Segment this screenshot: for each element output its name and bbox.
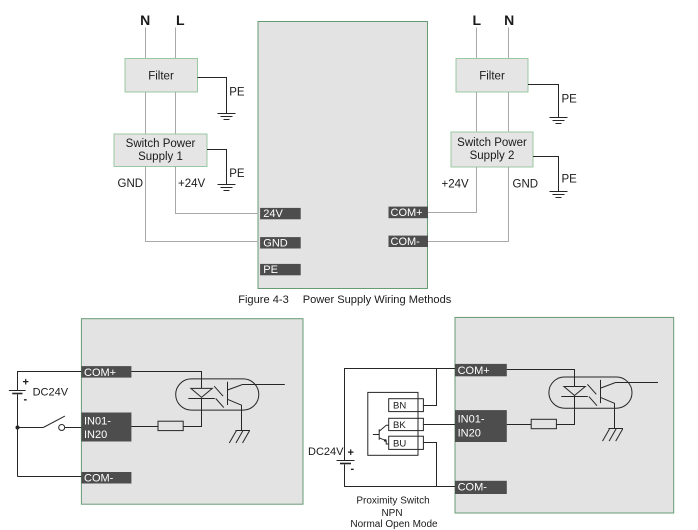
optocoupler U1 (left) <box>176 379 285 430</box>
svg-text:Switch Power: Switch Power <box>126 138 196 150</box>
wire battery- to COM- (right) <box>345 465 456 487</box>
svg-text:L: L <box>176 12 185 28</box>
wire SPS2 +24V to drive COM+ terminal <box>428 167 477 213</box>
svg-text:GND: GND <box>118 178 144 190</box>
terminal IN01-IN20 (bottom right) <box>455 410 507 442</box>
svg-text:N: N <box>504 12 514 28</box>
terminal BN <box>389 399 424 412</box>
svg-text:GND: GND <box>513 179 539 191</box>
svg-text:Proximity Switch: Proximity Switch <box>356 496 429 507</box>
input module box (right) <box>455 317 674 513</box>
terminal COM+ (bottom left) <box>81 366 131 379</box>
ground PE (SPS2) <box>550 192 568 198</box>
wire SPS2 PE <box>533 157 559 192</box>
input module box (left) <box>81 319 303 505</box>
battery DC24V (right) <box>337 461 355 464</box>
terminal 24V <box>260 208 301 220</box>
terminal COM- (top) <box>389 236 429 248</box>
svg-text:+24V: +24V <box>442 179 470 191</box>
wire COM+ to optocoupler LED (right) <box>507 370 575 387</box>
svg-text:COM-: COM- <box>458 482 488 494</box>
wire SPS1 GND to drive GND terminal <box>146 167 259 242</box>
wire Filter1 PE <box>198 78 227 114</box>
optocoupler U2 (right) <box>549 377 658 428</box>
terminal BK <box>389 418 424 431</box>
terminal COM- (bottom left) <box>81 472 131 484</box>
svg-text:Filter: Filter <box>148 71 174 83</box>
svg-text:-: - <box>351 463 355 475</box>
battery DC24V (left) <box>9 391 26 394</box>
svg-text:COM+: COM+ <box>458 365 490 377</box>
wire BU to COM- rail <box>423 443 436 487</box>
svg-text:DC24V: DC24V <box>33 387 69 399</box>
terminal COM- (bottom right) <box>455 481 507 494</box>
svg-text:Supply 2: Supply 2 <box>470 150 515 162</box>
ground PE (filter 2) <box>550 118 568 124</box>
wire IN01 to resistor (right) <box>507 424 531 426</box>
svg-text:COM+: COM+ <box>391 207 423 219</box>
svg-text:COM-: COM- <box>84 472 114 484</box>
switch contact circle <box>59 425 65 431</box>
switch power supply 1 box <box>114 134 207 167</box>
wire Filter2 L to SPS2 <box>476 92 478 132</box>
switch blade <box>43 416 65 427</box>
svg-text:-: - <box>24 394 28 406</box>
wire Filter1 L to Switch Power Supply 1 <box>175 92 177 134</box>
svg-text:BN: BN <box>393 401 406 412</box>
terminal PE <box>260 264 301 276</box>
svg-text:24V: 24V <box>263 208 283 220</box>
svg-text:COM-: COM- <box>391 236 421 248</box>
ground PE (filter 1) <box>218 114 236 120</box>
ground (opto emitter, right) <box>603 429 624 442</box>
svg-text:Filter: Filter <box>479 71 505 83</box>
wire Filter1 N to Switch Power Supply 1 <box>145 92 147 134</box>
svg-text:IN01-: IN01- <box>84 416 111 428</box>
svg-text:PE: PE <box>263 264 278 276</box>
wire resistor to LED cathode (left) <box>183 399 201 427</box>
wire N to Filter 2 <box>508 28 510 59</box>
wire SPS2 GND to drive COM- terminal <box>428 167 509 242</box>
wire COM- (bottom left) <box>18 476 82 478</box>
svg-text:Normal Open Mode: Normal Open Mode <box>350 519 438 530</box>
svg-text:IN01-: IN01- <box>458 414 485 426</box>
svg-text:IN20: IN20 <box>84 429 107 441</box>
svg-text:PE: PE <box>229 168 245 180</box>
wire L to Filter 2 <box>476 28 478 59</box>
svg-text:COM+: COM+ <box>84 367 116 379</box>
wire SPS1 +24V to drive 24V terminal <box>176 167 259 214</box>
svg-text:N: N <box>140 12 150 28</box>
svg-text:PE: PE <box>229 87 245 99</box>
resistor R (right) <box>531 419 556 428</box>
ground (opto emitter, left) <box>229 431 250 444</box>
wire SPS1 PE <box>207 150 227 185</box>
svg-text:PE: PE <box>562 94 578 106</box>
svg-text:BK: BK <box>393 420 406 431</box>
svg-text:Switch Power: Switch Power <box>457 137 527 149</box>
terminal BU <box>389 436 424 449</box>
transistor Q1 (proximity sensor NPN) <box>373 425 389 444</box>
wire L to Filter 1 <box>175 28 177 59</box>
ground PE (SPS1) <box>218 185 236 191</box>
svg-text:GND: GND <box>263 237 288 249</box>
wire Filter2 N to SPS2 <box>508 92 510 132</box>
filter 2 box <box>456 59 528 93</box>
resistor R (left) <box>158 421 183 430</box>
wire N to Filter 1 <box>145 28 147 59</box>
wire COM+ to optocoupler LED (left) <box>131 372 201 389</box>
wire BN to COM+ rail <box>423 369 436 406</box>
wire IN01 to resistor (left) <box>131 426 158 428</box>
svg-text:PE: PE <box>562 174 578 186</box>
terminal IN01-IN20 (bottom left) <box>81 413 131 442</box>
svg-text:L: L <box>473 12 482 28</box>
svg-text:+: + <box>23 377 29 389</box>
svg-text:DC24V: DC24V <box>308 446 344 458</box>
switch power supply 2 box <box>451 132 533 167</box>
svg-text:Supply 1: Supply 1 <box>138 151 183 163</box>
wire switch to IN01 <box>65 427 82 429</box>
drive unit main box <box>258 22 428 289</box>
svg-text:+24V: +24V <box>178 178 206 190</box>
wire Filter2 PE <box>528 85 559 118</box>
wire resistor to LED cathode (right) <box>556 397 574 425</box>
wire battery+ to COM+ (right) <box>345 369 456 461</box>
wire to switch <box>18 427 44 429</box>
terminal COM+ (bottom right) <box>455 364 507 377</box>
svg-text:Figure 4-3: Figure 4-3 <box>238 294 289 306</box>
svg-text:Power Supply Wiring Methods: Power Supply Wiring Methods <box>303 294 452 306</box>
svg-text:IN20: IN20 <box>458 428 481 440</box>
proximity switch outer box <box>368 392 418 455</box>
svg-text:BU: BU <box>393 438 406 449</box>
wire battery- down <box>17 394 19 476</box>
terminal COM+ (top) <box>389 207 429 219</box>
terminal GND <box>260 237 301 249</box>
wire battery+ to COM+ <box>18 372 82 391</box>
svg-text:+: + <box>348 447 354 459</box>
junction node (battery/switch) <box>16 426 20 430</box>
wire BK to IN01 <box>423 424 455 426</box>
svg-text:NPN: NPN <box>381 508 402 519</box>
filter 1 box <box>125 59 198 93</box>
